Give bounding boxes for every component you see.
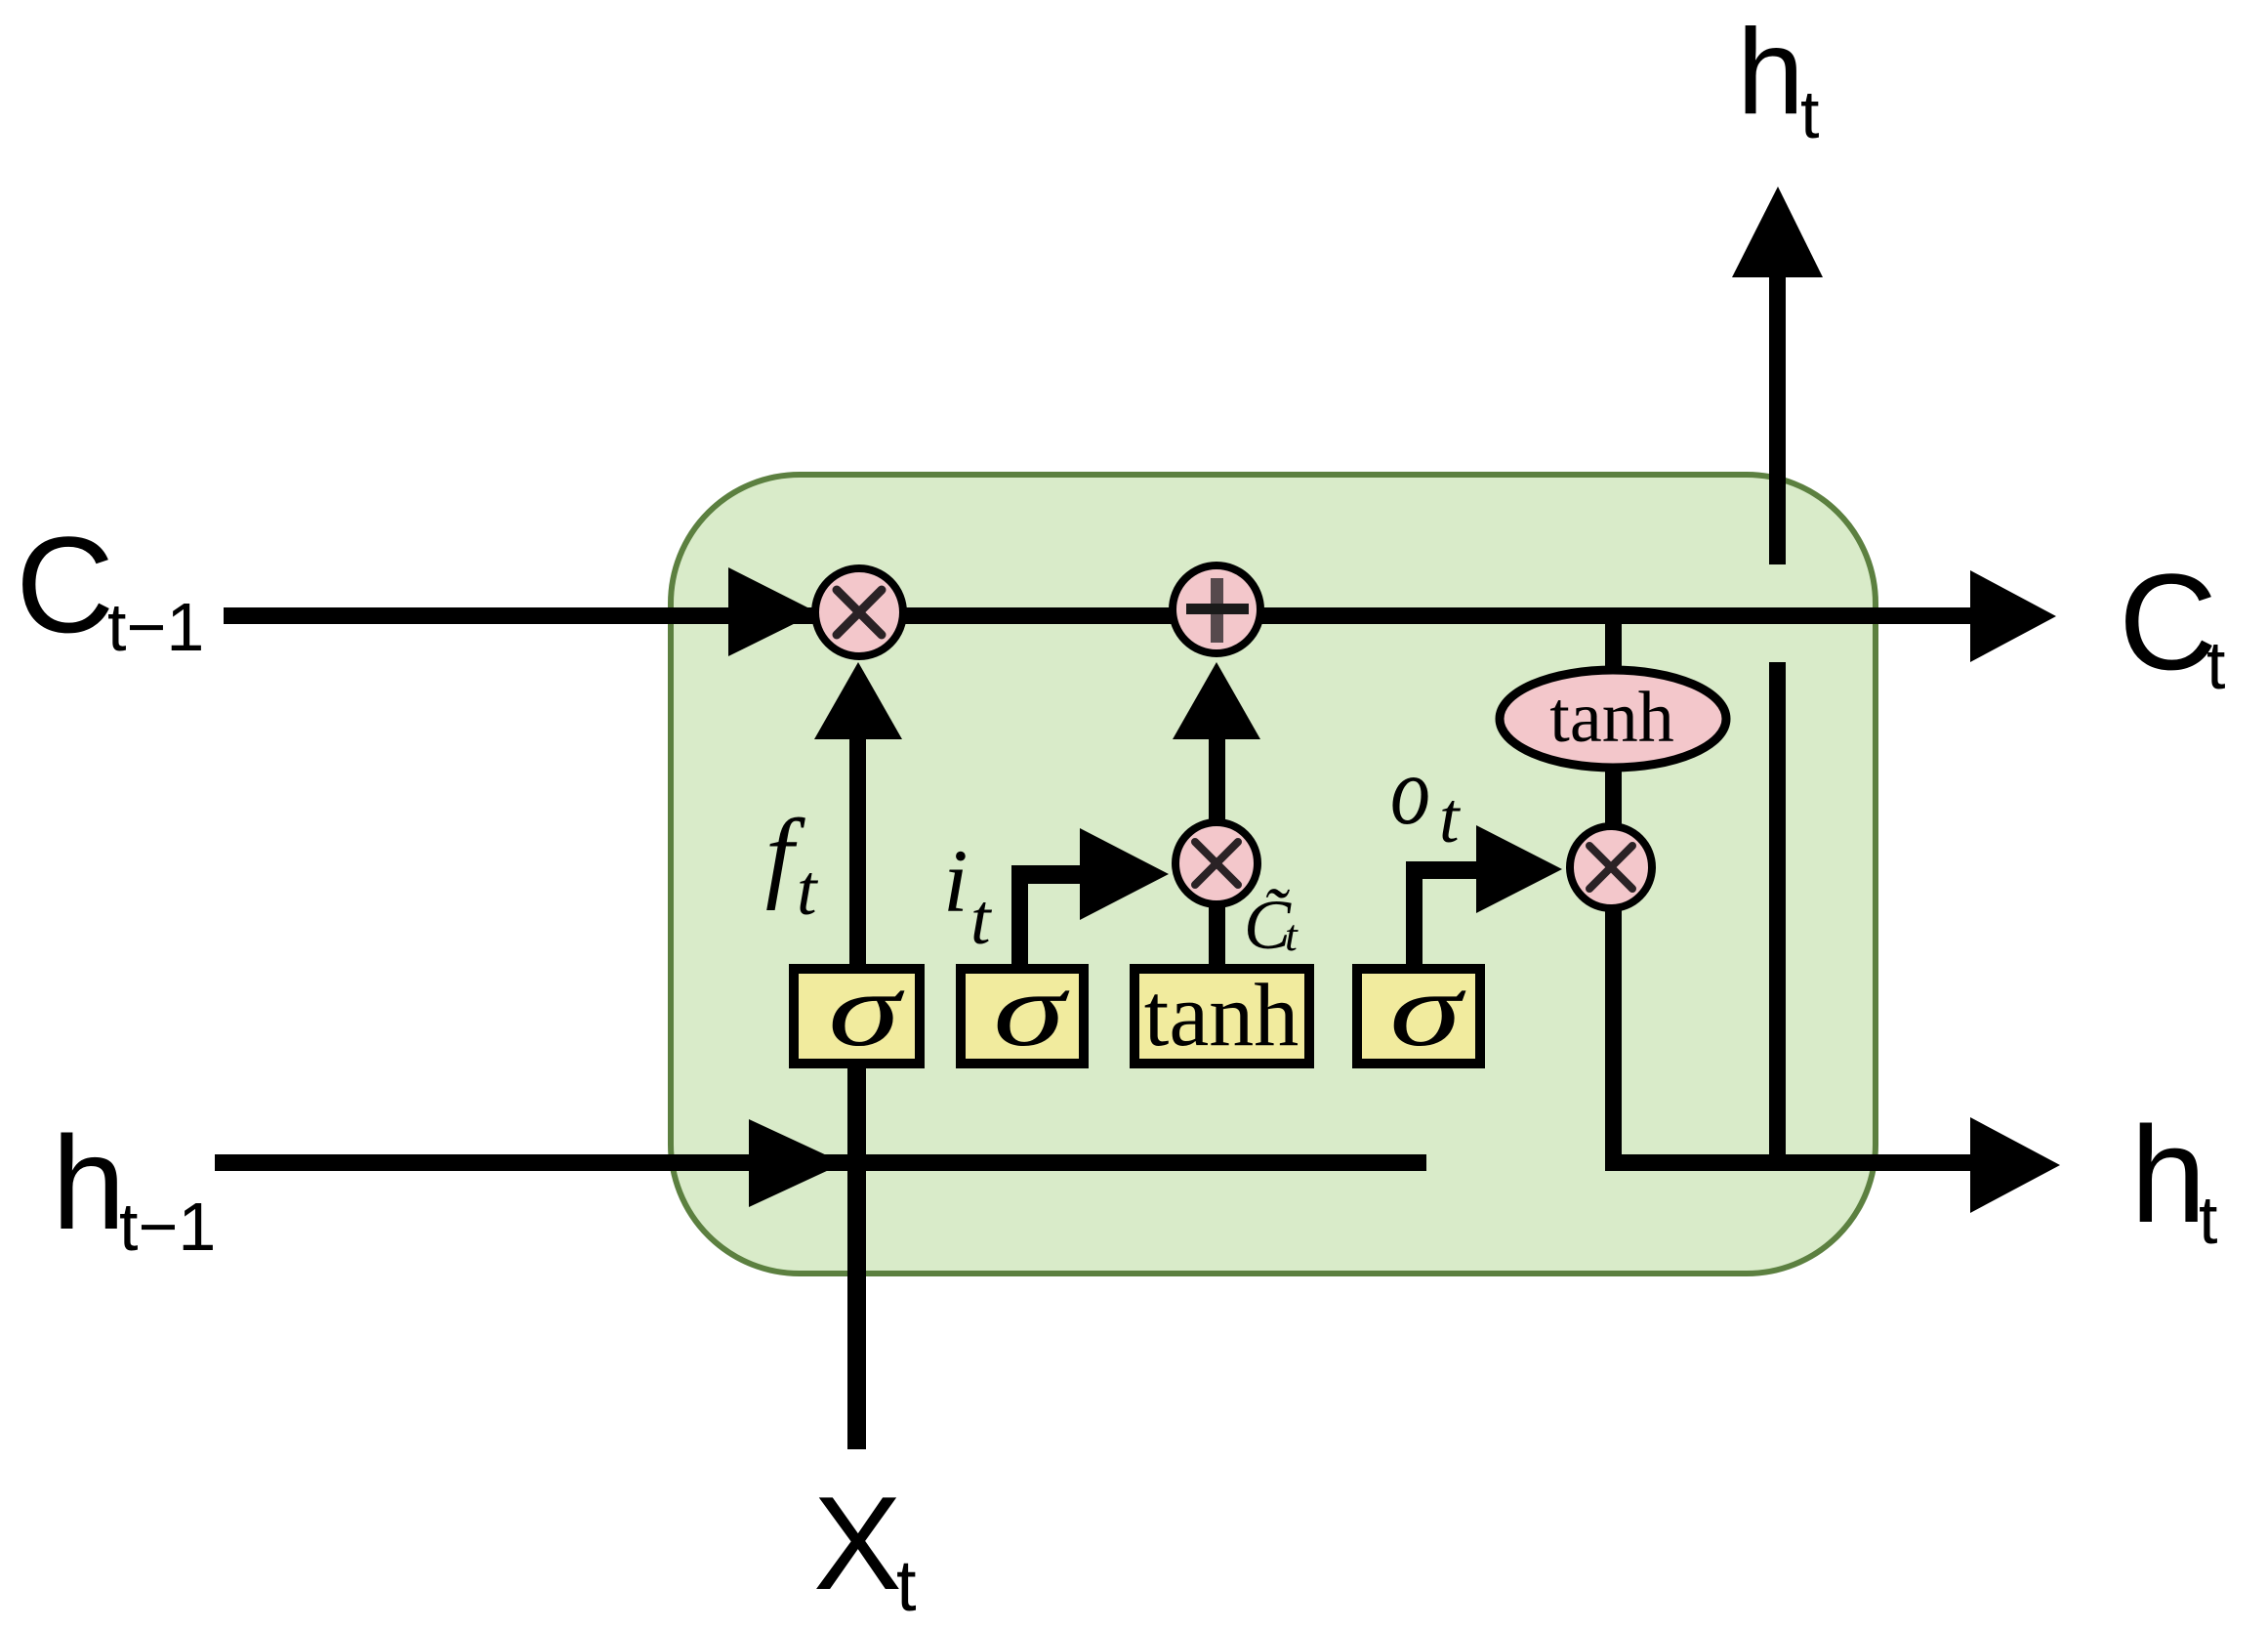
op: multiply circle 3 (output) bbox=[1570, 826, 1652, 908]
gate: sigma box 1 (forget) bbox=[794, 969, 920, 1064]
svg-text:t−1: t−1 bbox=[119, 1189, 216, 1265]
wire: plus vertical from tanh box through x-circle up to + circle bbox=[1209, 737, 1225, 964]
svg-text:t: t bbox=[2206, 627, 2225, 703]
wire: sigma1 vertical up to x-circle with arrowhead bbox=[849, 737, 866, 964]
LSTM cell body (green rounded box) bbox=[671, 475, 1876, 1274]
wire: h_t output vertical (top, broken at C line) bbox=[1769, 275, 1786, 564]
wire: o_t elbow from sigma4 bbox=[1406, 861, 1423, 964]
svg-text:h: h bbox=[52, 1108, 126, 1257]
gate: tanh box (candidate) bbox=[1134, 969, 1309, 1064]
svg-text:t: t bbox=[2199, 1182, 2217, 1258]
svg-text:t: t bbox=[1285, 910, 1299, 960]
wire: tanh connector verticals bbox=[1605, 617, 1622, 669]
svg-text:tanh: tanh bbox=[1549, 678, 1673, 758]
svg-text:t: t bbox=[797, 851, 819, 931]
wire: C_t exit arrowhead bbox=[1970, 570, 2056, 662]
svg-text:C: C bbox=[2119, 545, 2217, 698]
wire: X_t input vertical bbox=[847, 1067, 866, 1449]
svg-text:h: h bbox=[2130, 1098, 2206, 1251]
svg-text:t: t bbox=[970, 880, 993, 960]
svg-text:o: o bbox=[1390, 736, 1430, 844]
svg-text:σ: σ bbox=[993, 952, 1070, 1068]
op: tanh ellipse bbox=[1500, 670, 1726, 768]
wire: i_t elbow from sigma2 bbox=[1011, 865, 1028, 964]
wire: h entry arrowhead bbox=[749, 1119, 844, 1207]
svg-text:h: h bbox=[1737, 5, 1804, 140]
svg-text:σ: σ bbox=[828, 952, 905, 1068]
op: multiply circle 2 (input x candidate) bbox=[1175, 822, 1258, 904]
svg-text:t: t bbox=[1800, 76, 1819, 152]
svg-text:tanh: tanh bbox=[1144, 965, 1299, 1065]
wire: C line (cell state) horizontal bbox=[224, 607, 1985, 624]
svg-text:i: i bbox=[943, 831, 969, 931]
op: add circle bbox=[1173, 565, 1260, 653]
wire: h_t exit arrowhead right bbox=[1970, 1117, 2060, 1213]
svg-text:C: C bbox=[16, 508, 114, 661]
wire: h bottom line (right segment) bbox=[1605, 1154, 1982, 1171]
svg-text:t: t bbox=[1439, 778, 1462, 858]
wire: h bottom line (left segment) bbox=[215, 1154, 1426, 1171]
svg-text:σ: σ bbox=[1389, 952, 1466, 1068]
wire: C entry arrowhead bbox=[728, 567, 817, 656]
gate: sigma box 4 (output) bbox=[1357, 969, 1480, 1064]
svg-text:t−1: t−1 bbox=[107, 589, 204, 665]
gate: sigma box 2 (input) bbox=[961, 969, 1084, 1064]
svg-text:t: t bbox=[896, 1545, 917, 1626]
svg-text:X: X bbox=[813, 1469, 902, 1617]
op: multiply circle 1 (forget gate) bbox=[815, 568, 903, 656]
